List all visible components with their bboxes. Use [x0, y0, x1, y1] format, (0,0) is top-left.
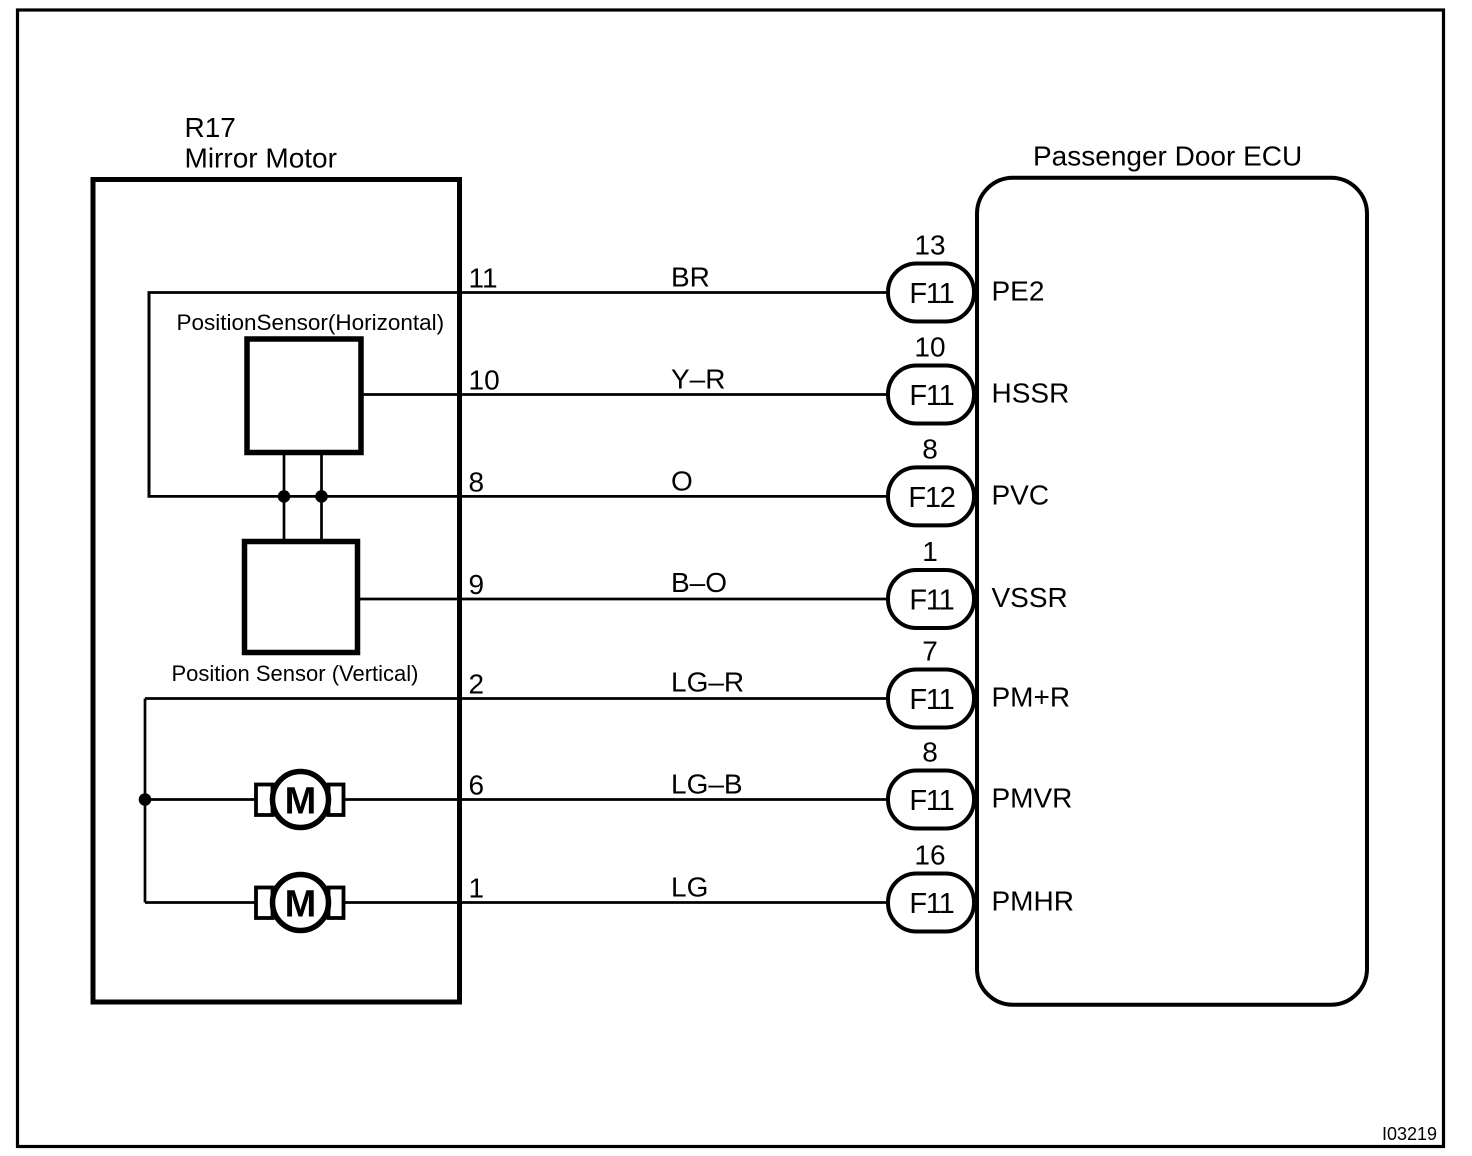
- wire sensor link left: [283, 453, 286, 542]
- svg-text:PMHR: PMHR: [992, 886, 1074, 917]
- svg-text:LG–R: LG–R: [671, 667, 744, 698]
- svg-text:F11: F11: [909, 380, 953, 412]
- junction dot motor bus: [139, 793, 152, 806]
- svg-text:F11: F11: [909, 585, 953, 617]
- svg-text:B–O: B–O: [671, 567, 727, 598]
- svg-text:8: 8: [922, 737, 938, 768]
- svg-text:8: 8: [922, 433, 938, 464]
- svg-text:2: 2: [469, 669, 485, 700]
- svg-text:F12: F12: [908, 482, 954, 514]
- junction dot sensor right: [315, 490, 328, 503]
- svg-text:7: 7: [922, 636, 938, 667]
- svg-text:M: M: [285, 884, 317, 926]
- svg-text:13: 13: [914, 230, 945, 261]
- svg-text:LG–B: LG–B: [671, 769, 743, 800]
- svg-text:PVC: PVC: [992, 479, 1050, 510]
- svg-text:16: 16: [914, 840, 945, 871]
- svg-text:1: 1: [469, 873, 485, 904]
- svg-text:11: 11: [469, 263, 498, 294]
- svg-text:I03219: I03219: [1382, 1124, 1437, 1144]
- wire pin 2 LG-R to F11 PM+R: [145, 697, 887, 700]
- connector F11 pin 1 (VSSR): [888, 536, 974, 628]
- connector F11 pin 16 (PMHR): [888, 840, 974, 932]
- wire pin 10 Y-R to F11 HSSR: [361, 393, 887, 396]
- svg-text:6: 6: [469, 770, 485, 801]
- wire pin 6 LG-B to F11 PMVR: [145, 798, 887, 801]
- connector F11 pin 13 (PE2): [888, 230, 974, 322]
- svg-text:F11: F11: [909, 684, 953, 716]
- wire pin 11 BR to F11 PE2: [148, 291, 888, 294]
- svg-text:R17: R17: [185, 112, 236, 143]
- wire pin 9 B-O to F11 VSSR: [358, 598, 888, 601]
- svg-text:1: 1: [922, 536, 938, 567]
- wire pin 8 O to F12 PVC: [148, 495, 888, 498]
- svg-text:F11: F11: [909, 888, 953, 920]
- svg-text:9: 9: [469, 569, 485, 600]
- wire pin 1 LG to F11 PMHR: [145, 901, 887, 904]
- motor M2 (horizontal mirror motor): [256, 875, 344, 931]
- svg-text:Y–R: Y–R: [671, 364, 725, 395]
- svg-text:Passenger Door ECU: Passenger Door ECU: [1033, 141, 1302, 172]
- wire motor bus vertical: [144, 699, 147, 903]
- svg-text:F11: F11: [909, 785, 953, 817]
- svg-text:Mirror Motor: Mirror Motor: [185, 143, 337, 174]
- connector F11 pin 8 (PMVR): [888, 737, 974, 829]
- svg-text:VSSR: VSSR: [992, 582, 1068, 613]
- svg-text:PM+R: PM+R: [992, 682, 1071, 713]
- svg-text:M: M: [285, 781, 317, 823]
- svg-text:BR: BR: [671, 262, 710, 293]
- connector F11 pin 10 (HSSR): [888, 332, 974, 424]
- junction dot sensor left: [278, 490, 291, 503]
- svg-text:O: O: [671, 465, 693, 496]
- svg-text:PE2: PE2: [992, 276, 1045, 307]
- svg-text:8: 8: [469, 466, 485, 497]
- svg-text:F11: F11: [909, 278, 953, 310]
- connector F12 pin 8 (PVC): [888, 433, 974, 525]
- svg-text:PositionSensor(Horizontal): PositionSensor(Horizontal): [177, 310, 445, 335]
- svg-text:10: 10: [469, 365, 500, 396]
- svg-text:HSSR: HSSR: [992, 378, 1070, 409]
- wire sensor link right: [320, 453, 323, 542]
- svg-text:LG: LG: [671, 872, 708, 903]
- position sensor vertical element: [245, 542, 358, 653]
- svg-text:Position Sensor (Vertical): Position Sensor (Vertical): [172, 661, 419, 686]
- svg-text:10: 10: [914, 332, 945, 363]
- wire position sensor enclosure left edge: [148, 293, 151, 497]
- position sensor horizontal element: [247, 339, 361, 453]
- mirror motor assembly R17 box: [93, 180, 460, 1003]
- passenger door ECU box: [977, 178, 1367, 1005]
- svg-text:PMVR: PMVR: [992, 783, 1073, 814]
- motor M1 (vertical mirror motor): [256, 772, 344, 828]
- connector F11 pin 7 (PM+R): [888, 636, 974, 728]
